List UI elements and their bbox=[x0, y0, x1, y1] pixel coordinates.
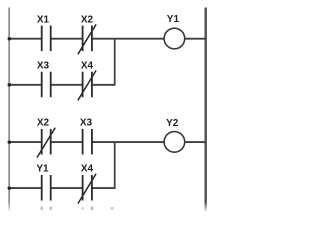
contact X3 (NO) bbox=[42, 72, 51, 98]
junction node rail-rung2 bbox=[8, 141, 11, 144]
coil Y2 bbox=[164, 132, 185, 153]
svg-text:X2: X2 bbox=[81, 14, 94, 25]
contact X3 rung2 (NO) bbox=[83, 129, 92, 155]
wire coil Y2 to right rail bbox=[185, 141, 206, 143]
svg-text:Y1: Y1 bbox=[167, 14, 180, 25]
junction node rail-branch2 bbox=[8, 187, 11, 190]
contact X4 branch2 (NC) bbox=[78, 174, 96, 204]
wire branch2 X4 to junction bbox=[92, 187, 116, 189]
wire branch1 rail to X3 bbox=[8, 84, 41, 86]
wire branch1 X4 to junction bbox=[92, 84, 116, 86]
contact Y1 branch2 (NO) bbox=[42, 175, 51, 201]
wire branch2 rail to Y1 contact bbox=[8, 187, 41, 189]
wire rung2 X3 to coil Y2 bbox=[92, 141, 164, 143]
left power rail bbox=[8, 8, 10, 212]
wire coil Y1 to right rail bbox=[185, 38, 206, 40]
coil Y1 bbox=[164, 28, 185, 49]
svg-text:X3: X3 bbox=[80, 118, 93, 129]
svg-text:Y1: Y1 bbox=[36, 164, 49, 175]
wire branch2 vertical junction bbox=[114, 141, 116, 189]
wire rung1 X1 to X2 bbox=[51, 38, 83, 40]
wire rung1 rail to X1 bbox=[8, 38, 41, 40]
wire rung2 rail to X2 bbox=[8, 141, 41, 143]
contact X2 (NC) bbox=[78, 24, 96, 54]
svg-text:X4: X4 bbox=[81, 164, 94, 175]
svg-text:X3: X3 bbox=[37, 60, 50, 71]
right power rail bbox=[205, 8, 207, 212]
contact X2 rung2 (NC) bbox=[37, 128, 55, 158]
svg-text:X2: X2 bbox=[37, 118, 50, 129]
contact X4 (NC) bbox=[78, 70, 96, 100]
junction node rail-branch1 bbox=[8, 83, 11, 86]
wire branch1 X3 to X4 bbox=[51, 84, 83, 86]
wire rung2 X2 to X3 bbox=[51, 141, 83, 143]
wire rung1 X2 to coil Y1 bbox=[92, 38, 164, 40]
svg-text:X1: X1 bbox=[37, 14, 50, 25]
svg-text:X4: X4 bbox=[81, 60, 94, 71]
svg-text:Y2: Y2 bbox=[166, 118, 179, 129]
wire branch2 Y1 contact to X4 bbox=[51, 187, 83, 189]
cropped fade remnants of contact bars bbox=[41, 207, 114, 211]
contact X1 (NO) bbox=[42, 26, 51, 51]
wire branch1 vertical junction bbox=[114, 38, 116, 86]
junction node rail-rung1 bbox=[8, 37, 11, 40]
